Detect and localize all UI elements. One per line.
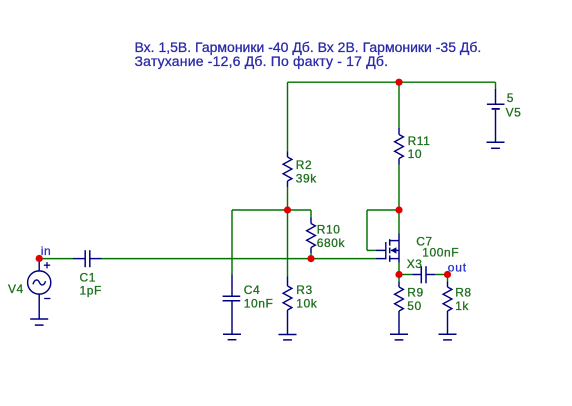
svg-text:10: 10 (408, 147, 422, 161)
svg-text:5: 5 (507, 91, 514, 105)
svg-text:39k: 39k (296, 171, 317, 185)
svg-text:R8: R8 (455, 286, 471, 300)
svg-text:1pF: 1pF (80, 284, 102, 298)
svg-text:V5: V5 (506, 106, 522, 120)
svg-text:Затухание -12,6 Дб. По факту -: Затухание -12,6 Дб. По факту - 17 Дб. (135, 53, 389, 69)
svg-text:C4: C4 (244, 283, 260, 297)
svg-text:10nF: 10nF (244, 297, 274, 311)
svg-text:R9: R9 (407, 286, 423, 300)
svg-text:1k: 1k (455, 299, 469, 313)
svg-text:R3: R3 (296, 283, 312, 297)
svg-text:50: 50 (407, 299, 421, 313)
svg-text:10k: 10k (296, 297, 317, 311)
svg-text:R10: R10 (317, 222, 341, 236)
svg-text:R11: R11 (408, 134, 431, 148)
svg-text:R2: R2 (296, 158, 312, 172)
svg-text:C1: C1 (80, 271, 96, 285)
svg-text:in: in (41, 244, 51, 258)
svg-text:V4: V4 (8, 282, 24, 296)
svg-text:100nF: 100nF (422, 245, 459, 259)
svg-text:680k: 680k (317, 236, 346, 250)
svg-text:X3: X3 (407, 257, 423, 271)
svg-text:out: out (448, 261, 467, 275)
